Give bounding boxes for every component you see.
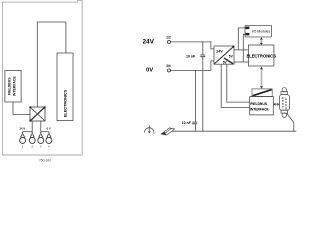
svg-text:750-342: 750-342 — [39, 159, 51, 163]
wire: branch from 0V to capacitor C2 and earth rail — [194, 70, 196, 131]
bonding wedge (rail clamp) — [161, 128, 174, 135]
terminal 1 cage clamp (24V) — [20, 132, 26, 144]
device housing outline (left drawing, 750-342 coupler) — [2, 1, 82, 155]
PE earth electrode symbol — [145, 125, 154, 133]
svg-text:0 V: 0 V — [47, 127, 51, 131]
terminal 3/4 circle — [167, 69, 170, 72]
wire: GND output to electronics — [234, 61, 248, 63]
earth rail (equipotential busbar) — [171, 130, 297, 132]
wire: 0V from terminal 3/4 to DC/DC input — [171, 61, 214, 71]
wire: 5V tap up to I/O modules — [238, 28, 245, 50]
power jumper bar right (0V) — [41, 131, 49, 133]
svg-text:INTERFACE: INTERFACE — [250, 107, 270, 111]
fieldbus interface box (right) — [250, 97, 274, 115]
capacitor C1 10nF plates — [200, 55, 205, 57]
galvanic isolation barrier — [252, 89, 272, 97]
dc/dc converter 24V/5V — [214, 46, 234, 65]
wire: isolated supply to fieldbus interface (lower) — [221, 64, 250, 107]
data contacts node (crossed square) — [30, 107, 45, 121]
fieldbus interface block (left) — [5, 70, 21, 102]
terminal 4 cage clamp (0V) — [46, 132, 52, 144]
i/o modules box — [245, 25, 272, 37]
terminal 1/2 circle — [167, 40, 170, 43]
data arrow: electronics to fieldbus interface (through isolation) — [260, 67, 263, 89]
svg-text:3/4: 3/4 — [166, 64, 171, 68]
svg-text:FIELDBUS: FIELDBUS — [8, 77, 12, 95]
wire: 5V output to electronics — [234, 49, 248, 51]
data arrow: i/o modules to electronics — [260, 37, 263, 45]
wire: GND tap up to I/O modules — [243, 34, 245, 62]
electronics box (right) — [246, 45, 276, 66]
svg-text:0V: 0V — [146, 68, 153, 74]
electronics block (left) — [57, 53, 73, 121]
wire: branch from 24V to capacitor C1 and earth rail — [202, 42, 204, 131]
svg-text:FIELDBUS: FIELDBUS — [250, 102, 267, 106]
svg-text:24V: 24V — [143, 39, 155, 46]
svg-text:1/2: 1/2 — [166, 36, 171, 40]
svg-text:ELECTRONICS: ELECTRONICS — [246, 53, 276, 58]
data arrow: fieldbus interface to connector — [273, 103, 279, 106]
svg-text:24 V: 24 V — [20, 127, 26, 131]
wire stubs from data contacts to power jumper bars — [32, 121, 41, 132]
power jumper bar left (24V) — [23, 131, 33, 133]
wire: isolated supply to fieldbus interface (upper) — [227, 64, 250, 102]
terminal 3 cage clamp — [38, 132, 44, 144]
svg-text:10 nF: 10 nF — [182, 121, 192, 125]
svg-text:10 nF: 10 nF — [186, 55, 196, 59]
svg-text:ELECTRONICS: ELECTRONICS — [62, 89, 67, 117]
wire: fieldbus interface to data contacts — [13, 102, 30, 115]
terminal 2 cage clamp — [29, 132, 35, 144]
svg-text:INTERFACE: INTERFACE — [13, 76, 17, 97]
svg-text:24V: 24V — [216, 49, 223, 53]
fieldbus D-sub connector — [280, 88, 290, 118]
svg-text:I/O Modules: I/O Modules — [252, 30, 271, 34]
wire: data contacts up and over to electronics block — [37, 22, 66, 107]
capacitor C2 10nF plates — [192, 122, 197, 124]
wire: connector shield to earth rail — [287, 113, 294, 131]
terminal numbers 1 2 3 4 — [22, 145, 50, 149]
wire: 24V from terminal 1/2 to DC/DC input — [171, 42, 214, 49]
